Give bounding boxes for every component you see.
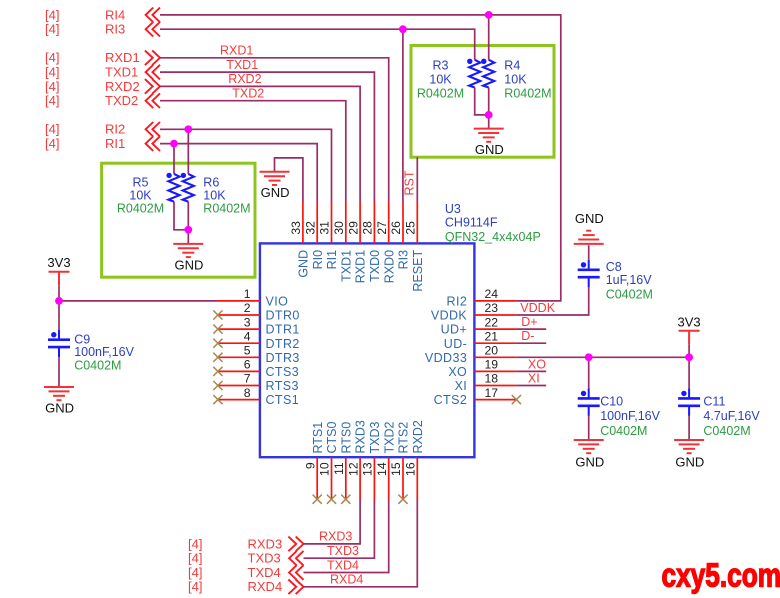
svg-text:[4]: [4]	[45, 93, 59, 108]
wire rail down to C10	[588, 357, 590, 388]
svg-text:RI1: RI1	[325, 250, 339, 270]
port TXD4 (sheet ref [4])	[188, 565, 281, 580]
pin 9 (RTS1) bottom	[303, 422, 324, 499]
wire RI4 row to R4 and down to pin 24	[160, 15, 561, 301]
junction RI3/pin26	[399, 25, 407, 33]
wire RI3 row to R3 top	[160, 29, 475, 60]
capacitor C9	[48, 330, 70, 358]
no-connect cross pin 5	[213, 353, 222, 362]
no-connect cross pin 2	[213, 310, 222, 319]
wire RST net from pin 25 up to box edge	[416, 157, 418, 201]
svg-text:RESET: RESET	[411, 250, 425, 292]
svg-text:U3: U3	[445, 202, 461, 216]
svg-text:RI0: RI0	[311, 250, 325, 270]
junction RI1/R5	[170, 140, 178, 148]
svg-text:XI: XI	[528, 372, 540, 386]
port chevron RI2	[146, 122, 160, 137]
pin 1 (VIO) left	[218, 287, 288, 308]
svg-text:RXD3: RXD3	[354, 420, 368, 453]
wire RXD2 to pin 29	[160, 86, 360, 201]
svg-text:R5: R5	[133, 176, 149, 190]
svg-text:3V3: 3V3	[47, 255, 70, 270]
ground symbol near pin 33	[260, 172, 290, 185]
no-connect cross pin 4	[213, 339, 222, 348]
svg-text:RXD4: RXD4	[330, 573, 363, 587]
wire pin 1 to 3V3/C9 junction	[59, 300, 218, 302]
svg-text:C0402M: C0402M	[703, 424, 750, 438]
pin 10 (CTS0) bottom	[318, 422, 339, 500]
svg-text:XI: XI	[455, 379, 468, 393]
port chevron RI4	[146, 8, 160, 23]
svg-text:RTS3: RTS3	[266, 379, 299, 393]
svg-text:C11: C11	[703, 395, 725, 409]
svg-text:CTS3: CTS3	[266, 365, 300, 379]
pin 17 (CTS2) right	[434, 386, 517, 407]
pin 7 (RTS3) left	[218, 372, 299, 393]
svg-text:GND: GND	[174, 257, 203, 272]
wire RXD3 to pin 12	[304, 499, 361, 544]
svg-text:13: 13	[361, 462, 375, 476]
pin 8 (CTS1) left	[218, 386, 299, 407]
svg-text:[4]: [4]	[188, 565, 202, 580]
pin 16 (RXD2) bottom	[404, 420, 425, 499]
svg-text:4.7uF,16V: 4.7uF,16V	[703, 409, 760, 423]
svg-text:TXD2: TXD2	[382, 422, 396, 454]
junction 3V3/C9/pin1	[55, 297, 63, 305]
svg-text:TXD4: TXD4	[248, 565, 281, 580]
U3 designator and part labels	[445, 202, 541, 244]
pin 27 (RXD0) top	[375, 201, 396, 283]
svg-text:4: 4	[244, 329, 251, 343]
svg-text:[4]: [4]	[45, 7, 59, 22]
svg-text:100nF,16V: 100nF,16V	[600, 409, 660, 423]
pin 19 (XO) right	[448, 358, 516, 379]
svg-text:D+: D+	[521, 315, 537, 329]
no-connect cross pin 3	[213, 325, 222, 334]
svg-text:UD-: UD-	[444, 337, 467, 351]
svg-text:33: 33	[289, 221, 303, 235]
port RI2 (sheet ref [4])	[45, 122, 125, 137]
port chevron TXD2	[146, 93, 160, 108]
resistor R5	[168, 174, 179, 202]
wire RI1 to pin 32	[160, 144, 317, 202]
pin 20 (VDD33) right	[425, 344, 516, 365]
svg-text:RXD1: RXD1	[354, 250, 368, 283]
svg-text:9: 9	[303, 462, 317, 469]
wire pin 23 to C8 bottom (VDDK)	[516, 287, 588, 315]
wire C10 bottom to GND	[588, 416, 590, 440]
svg-text:R4: R4	[504, 59, 520, 73]
wire RI2 branch down to R6 top	[187, 129, 189, 174]
svg-text:11: 11	[332, 462, 346, 475]
C11 labels	[703, 395, 760, 439]
pin 33 (GND) top	[289, 201, 310, 277]
svg-text:14: 14	[375, 462, 389, 476]
wire pin 22 stub (D+)	[516, 328, 546, 330]
wire C8 top to GND	[588, 245, 590, 260]
svg-text:VDDK: VDDK	[431, 309, 468, 323]
green highlight box around R3/R4	[411, 46, 554, 158]
port chevron RI3	[146, 22, 160, 37]
svg-text:RXD2: RXD2	[228, 72, 261, 86]
svg-text:[4]: [4]	[188, 551, 202, 566]
svg-text:22: 22	[485, 315, 499, 329]
svg-text:RST: RST	[403, 170, 417, 195]
svg-text:R0402M: R0402M	[417, 87, 464, 101]
wire C11 bottom to GND	[688, 416, 690, 440]
svg-text:TXD3: TXD3	[248, 551, 281, 566]
pin 14 (TXD2) bottom	[375, 422, 396, 500]
svg-text:GND: GND	[575, 211, 604, 226]
svg-text:GND: GND	[261, 185, 290, 200]
wire R6 bottom to GND	[187, 202, 189, 244]
svg-text:TXD2: TXD2	[105, 93, 138, 108]
svg-text:18: 18	[485, 372, 499, 386]
svg-text:RXD1: RXD1	[105, 50, 140, 65]
svg-text:TXD2: TXD2	[232, 87, 264, 101]
svg-text:C0402M: C0402M	[74, 358, 121, 372]
pin 28 (TXD0) top	[361, 201, 382, 281]
wire R4 bottom to GND	[488, 88, 490, 129]
svg-text:DTR0: DTR0	[266, 309, 300, 323]
svg-text:RI4: RI4	[105, 7, 125, 22]
svg-text:VIO: VIO	[266, 295, 289, 309]
svg-text:TXD3: TXD3	[327, 544, 359, 558]
wire pin 20 to 3V3 rail	[516, 356, 689, 358]
svg-text:RI3: RI3	[397, 250, 411, 270]
junction RI2/R6	[184, 125, 192, 133]
svg-text:[4]: [4]	[45, 122, 59, 137]
wire pin 19 stub (XO)	[516, 370, 546, 372]
port RI3 (sheet ref [4])	[45, 22, 125, 37]
svg-text:RI2: RI2	[105, 122, 125, 137]
no-connect cross pin 8	[213, 395, 222, 404]
pin 24 (RI2) right	[447, 287, 517, 308]
wire rail down to C11	[688, 357, 690, 388]
svg-text:RI1: RI1	[105, 136, 125, 151]
svg-text:RTS0: RTS0	[339, 422, 353, 454]
wire pin 18 stub (XI)	[516, 385, 546, 387]
pin 11 (RTS0) bottom	[332, 422, 353, 499]
svg-text:10K: 10K	[429, 73, 452, 87]
svg-text:23: 23	[485, 301, 499, 315]
pin 22 (UD+) right	[441, 315, 517, 336]
svg-text:D-: D-	[521, 329, 534, 343]
svg-text:cxy5.com: cxy5.com	[662, 558, 780, 595]
svg-text:CH9114F: CH9114F	[445, 216, 498, 230]
C10 labels	[600, 395, 660, 439]
pin 12 (RXD3) bottom	[346, 420, 367, 499]
svg-text:[4]: [4]	[45, 50, 59, 65]
pin 18 (XI) right	[455, 372, 517, 393]
pin 3 (DTR1) left	[218, 315, 300, 336]
wire TXD1 to pin 28	[160, 72, 374, 202]
ground symbol below C11	[674, 440, 704, 453]
svg-text:2: 2	[244, 301, 251, 315]
svg-text:R0402M: R0402M	[203, 202, 250, 216]
svg-text:CTS1: CTS1	[266, 393, 300, 407]
no-connect cross pin 10	[327, 495, 336, 504]
svg-text:[4]: [4]	[188, 579, 202, 594]
svg-text:1uF,16V: 1uF,16V	[606, 273, 653, 287]
port RI1 (sheet ref [4])	[45, 136, 125, 151]
svg-text:CTS2: CTS2	[434, 393, 468, 407]
pin 13 (TXD3) bottom	[361, 422, 382, 500]
svg-text:R3: R3	[433, 59, 449, 73]
svg-text:VDD33: VDD33	[425, 351, 467, 365]
svg-text:CTS0: CTS0	[325, 422, 339, 454]
pin 15 (RTS2) bottom	[389, 422, 410, 499]
ground symbol below C9	[44, 387, 74, 400]
svg-text:10K: 10K	[504, 73, 527, 87]
port TXD1 (sheet ref [4])	[45, 65, 138, 80]
svg-text:C8: C8	[606, 260, 622, 274]
junction RI4/R4	[485, 11, 493, 19]
svg-text:C0402M: C0402M	[606, 287, 653, 301]
ground symbol below R3/R4	[474, 129, 504, 142]
svg-text:100nF,16V: 100nF,16V	[74, 345, 134, 359]
svg-text:R6: R6	[203, 176, 219, 190]
svg-text:R0402M: R0402M	[117, 202, 164, 216]
svg-text:3V3: 3V3	[678, 314, 701, 329]
ground symbol above C8 (inverted)	[574, 231, 604, 244]
svg-text:[4]: [4]	[188, 536, 202, 551]
C9 labels	[74, 333, 134, 373]
svg-text:RI3: RI3	[105, 22, 125, 37]
C8 labels	[606, 260, 653, 302]
no-connect cross pin 15	[398, 495, 407, 504]
pin 26 (RI3) top	[389, 201, 410, 269]
port chevron TXD1	[146, 65, 160, 80]
wire 3V3 to C9 junction down to C9 top	[58, 285, 60, 329]
port chevron TXD3	[289, 551, 303, 566]
svg-text:TXD3: TXD3	[368, 422, 382, 454]
green highlight box around R5/R6	[102, 163, 255, 277]
no-connect cross pin 6	[213, 367, 222, 376]
svg-text:DTR1: DTR1	[266, 323, 300, 337]
svg-text:RTS2: RTS2	[397, 422, 411, 454]
wire RXD1 to pin 27	[160, 58, 389, 202]
svg-text:GND: GND	[675, 455, 704, 470]
wire TXD4 to pin 14	[304, 499, 389, 573]
svg-text:GND: GND	[575, 455, 604, 470]
power port 3V3 right	[679, 331, 700, 345]
svg-text:10K: 10K	[129, 189, 152, 203]
capacitor C10	[578, 388, 600, 416]
svg-text:29: 29	[346, 221, 360, 235]
svg-text:25: 25	[404, 221, 418, 235]
svg-text:15: 15	[389, 462, 403, 476]
capacitor C11	[678, 388, 700, 416]
svg-text:XO: XO	[448, 365, 467, 379]
svg-text:QFN32_4x4x04P: QFN32_4x4x04P	[445, 230, 541, 244]
wire R5 bottom to join	[174, 202, 188, 230]
wire TXD2 to pin 30	[160, 101, 346, 202]
svg-text:RXD2: RXD2	[411, 420, 425, 453]
pin 32 (RI0) top	[303, 201, 324, 269]
svg-text:RI2: RI2	[447, 295, 468, 309]
svg-text:TXD1: TXD1	[226, 58, 258, 72]
svg-text:RTS1: RTS1	[311, 422, 325, 454]
junction rail/C11/3V3	[685, 353, 693, 361]
svg-text:GND: GND	[475, 142, 504, 157]
port TXD3 (sheet ref [4])	[188, 551, 281, 566]
wire R4 top lead from RI4 row	[488, 15, 490, 60]
port RXD2 (sheet ref [4])	[45, 79, 140, 94]
svg-text:8: 8	[244, 386, 251, 400]
junction R3/R4 gnd	[485, 111, 493, 119]
pin 2 (DTR0) left	[218, 301, 300, 322]
svg-text:XO: XO	[528, 357, 546, 371]
svg-text:31: 31	[318, 221, 332, 235]
pin 31 (RI1) top	[318, 201, 339, 269]
junction R5/R6 gnd	[184, 226, 192, 234]
port RXD1 (sheet ref [4])	[45, 50, 140, 65]
svg-text:GND: GND	[45, 400, 74, 415]
svg-text:TXD1: TXD1	[339, 250, 353, 282]
svg-text:21: 21	[485, 329, 499, 343]
svg-text:C10: C10	[600, 395, 623, 409]
pin 23 (VDDK) right	[431, 301, 517, 322]
no-connect cross pin 11	[341, 495, 350, 504]
svg-text:RXD3: RXD3	[248, 536, 283, 551]
no-connect cross pin 7	[213, 381, 222, 390]
capacitor C8	[578, 260, 600, 288]
wire pin 21 stub (D-)	[516, 342, 546, 344]
svg-text:27: 27	[375, 221, 389, 235]
svg-text:[4]: [4]	[45, 136, 59, 151]
svg-text:TXD0: TXD0	[368, 250, 382, 282]
power port 3V3 left	[49, 272, 70, 286]
resistor R6	[183, 174, 194, 202]
wire TXD3 to pin 13	[304, 499, 375, 558]
port chevron RXD4	[288, 580, 303, 595]
svg-text:26: 26	[389, 221, 403, 235]
svg-text:DTR3: DTR3	[266, 351, 300, 365]
port RXD3 (sheet ref [4])	[188, 536, 282, 551]
svg-text:30: 30	[332, 221, 346, 235]
R3 labels	[417, 59, 464, 101]
pin 25 (RESET) top	[404, 201, 425, 291]
svg-text:R0402M: R0402M	[504, 87, 551, 101]
port chevron TXD4	[289, 565, 303, 580]
port chevron RI1	[146, 136, 160, 151]
wire C9 bottom to GND	[58, 357, 60, 387]
svg-text:7: 7	[244, 372, 251, 386]
wire RI2 to pin 31	[160, 129, 332, 201]
R6 labels	[203, 176, 250, 216]
R5 labels	[117, 176, 164, 216]
pin 29 (RXD1) top	[346, 201, 367, 283]
wire 3V3 right power to rail	[688, 344, 690, 357]
svg-text:10K: 10K	[203, 189, 226, 203]
svg-text:DTR2: DTR2	[266, 337, 300, 351]
resistor R4	[483, 60, 494, 88]
pin 6 (CTS3) left	[218, 358, 299, 379]
op-amp/IC body U3 CH9114F outline	[260, 243, 475, 457]
wire RI3 branch down to pin 26	[402, 29, 404, 201]
svg-text:12: 12	[346, 462, 360, 476]
port chevron RXD1	[145, 51, 160, 66]
svg-text:24: 24	[485, 287, 499, 301]
svg-text:28: 28	[361, 221, 375, 235]
R4 labels	[504, 59, 551, 101]
svg-text:32: 32	[303, 221, 317, 235]
svg-text:[4]: [4]	[45, 22, 59, 37]
svg-text:19: 19	[485, 358, 499, 372]
svg-text:5: 5	[244, 344, 251, 358]
no-connect cross pin 17	[512, 395, 521, 404]
svg-text:TXD4: TXD4	[327, 558, 359, 572]
resistor R3	[469, 60, 480, 88]
svg-text:17: 17	[485, 386, 499, 400]
svg-text:RXD3: RXD3	[319, 530, 352, 544]
pin 4 (DTR2) left	[218, 329, 300, 350]
svg-text:6: 6	[244, 358, 251, 372]
ground symbol below R5/R6	[173, 244, 203, 257]
svg-text:3: 3	[244, 315, 251, 329]
svg-text:VDDK: VDDK	[520, 301, 555, 315]
svg-text:TXD1: TXD1	[105, 65, 138, 80]
junction rail/C10	[585, 353, 593, 361]
svg-text:GND: GND	[297, 250, 311, 278]
wire RXD4 to pin 16	[304, 499, 418, 587]
port chevron RXD3	[288, 537, 303, 552]
wire RI1 branch down to R5 top	[173, 144, 175, 174]
ground symbol below C10	[574, 440, 604, 453]
svg-text:10: 10	[318, 462, 332, 476]
svg-text:20: 20	[485, 344, 499, 358]
pin 5 (DTR3) left	[218, 344, 300, 365]
port chevron RXD2	[145, 79, 160, 94]
wire R3 bottom to join	[475, 88, 489, 115]
svg-text:UD+: UD+	[441, 323, 468, 337]
svg-text:RXD2: RXD2	[105, 79, 140, 94]
svg-text:1: 1	[244, 287, 251, 301]
pin 30 (TXD1) top	[332, 201, 353, 281]
pin 21 (UD-) right	[444, 329, 517, 350]
svg-text:RXD0: RXD0	[382, 250, 396, 283]
port RXD4 (sheet ref [4])	[188, 579, 282, 594]
svg-text:[4]: [4]	[45, 79, 59, 94]
svg-text:RXD1: RXD1	[220, 44, 253, 58]
svg-text:C0402M: C0402M	[600, 424, 647, 438]
svg-text:16: 16	[404, 462, 418, 476]
svg-text:[4]: [4]	[45, 65, 59, 80]
svg-text:RXD4: RXD4	[248, 579, 283, 594]
no-connect cross pin 9	[313, 495, 322, 504]
wire pin 33 to GND symbol	[275, 158, 303, 202]
port TXD2 (sheet ref [4])	[45, 93, 138, 108]
port RI4 (sheet ref [4])	[45, 7, 125, 22]
